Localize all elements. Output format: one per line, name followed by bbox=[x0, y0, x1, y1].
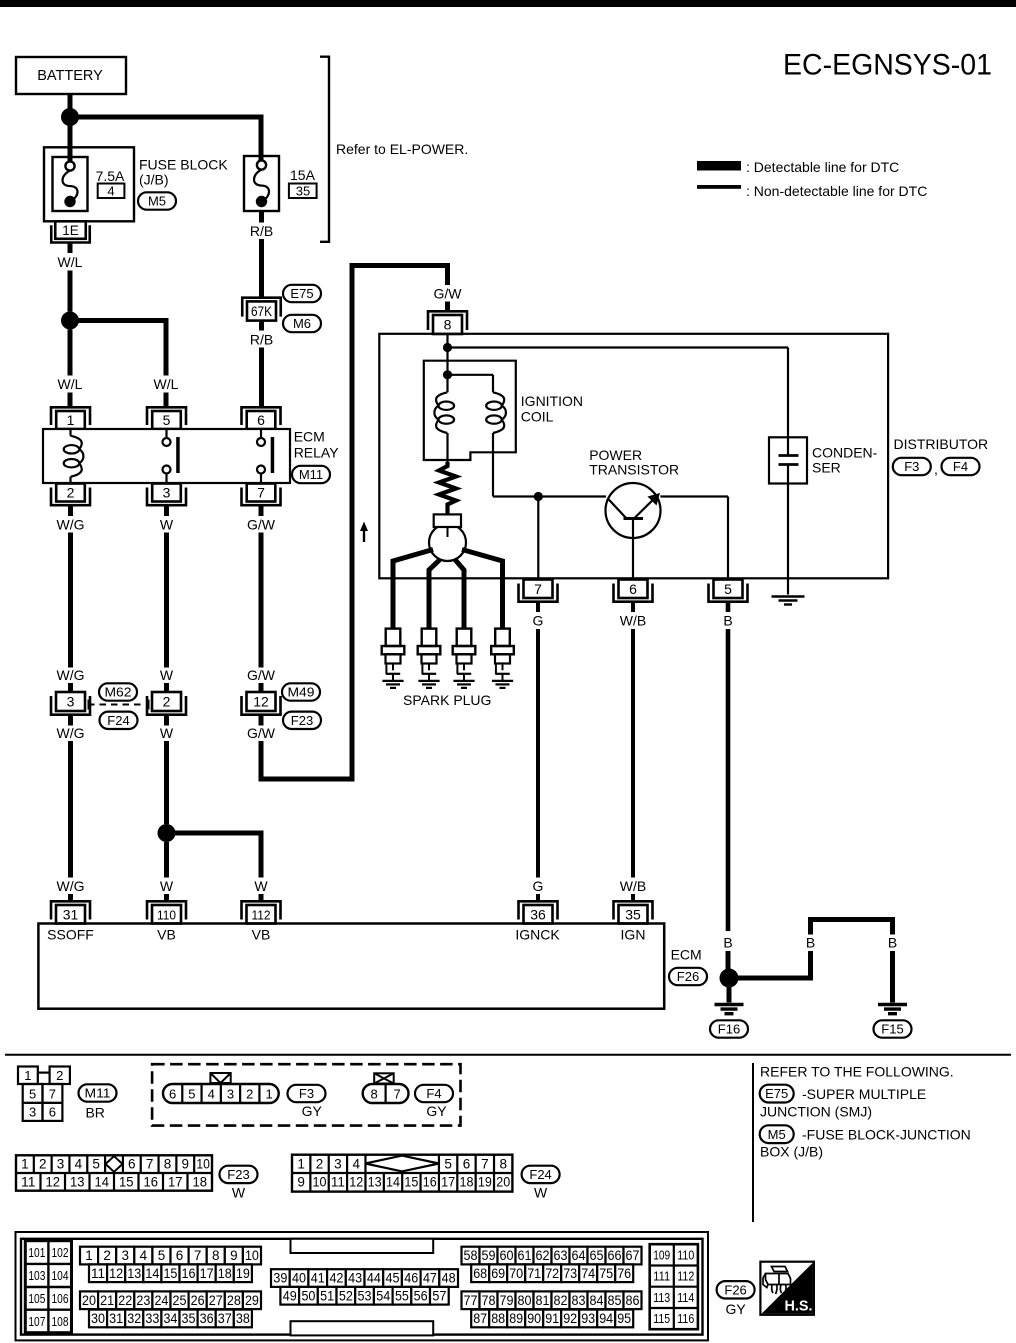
svg-text:W/G: W/G bbox=[57, 667, 85, 683]
svg-text:22: 22 bbox=[118, 1293, 132, 1308]
svg-text:104: 104 bbox=[52, 1269, 69, 1283]
svg-text:G/W: G/W bbox=[247, 725, 276, 741]
svg-text:6: 6 bbox=[169, 1086, 176, 1101]
svg-text:F23: F23 bbox=[291, 713, 313, 728]
svg-text:57: 57 bbox=[432, 1288, 446, 1303]
svg-text:112: 112 bbox=[677, 1270, 694, 1284]
svg-text:44: 44 bbox=[367, 1271, 381, 1286]
svg-text:6: 6 bbox=[176, 1248, 184, 1263]
svg-text:W/L: W/L bbox=[58, 254, 83, 270]
svg-text:GY: GY bbox=[426, 1103, 447, 1119]
svg-text:G/W: G/W bbox=[434, 286, 463, 302]
svg-text:F3: F3 bbox=[904, 459, 919, 474]
svg-text:16: 16 bbox=[423, 1175, 437, 1190]
svg-text:1: 1 bbox=[67, 412, 75, 428]
svg-text:3: 3 bbox=[57, 1157, 65, 1172]
svg-text:15: 15 bbox=[119, 1174, 134, 1189]
svg-text:W: W bbox=[232, 1185, 246, 1201]
svg-text:59: 59 bbox=[482, 1248, 496, 1263]
svg-text:58: 58 bbox=[464, 1248, 478, 1263]
svg-text:M11: M11 bbox=[85, 1086, 111, 1101]
svg-text:B: B bbox=[723, 613, 732, 629]
svg-text:,: , bbox=[934, 461, 938, 477]
svg-text:F4: F4 bbox=[426, 1086, 441, 1101]
svg-text:47: 47 bbox=[423, 1271, 437, 1286]
svg-text:16: 16 bbox=[144, 1174, 159, 1189]
svg-text:49: 49 bbox=[283, 1288, 297, 1303]
svg-text:F26: F26 bbox=[724, 1282, 746, 1297]
svg-text:5: 5 bbox=[92, 1157, 100, 1172]
svg-text:EC-EGNSYS-01: EC-EGNSYS-01 bbox=[783, 49, 992, 82]
svg-text:7: 7 bbox=[257, 485, 265, 501]
svg-text:20: 20 bbox=[496, 1175, 510, 1190]
svg-text:7: 7 bbox=[534, 581, 542, 597]
svg-text:W: W bbox=[160, 667, 174, 683]
svg-text:CONDEN-: CONDEN- bbox=[812, 445, 878, 461]
svg-text:W/B: W/B bbox=[620, 613, 646, 629]
svg-text:40: 40 bbox=[292, 1271, 306, 1286]
svg-text:3: 3 bbox=[67, 694, 75, 710]
svg-text:8: 8 bbox=[164, 1157, 172, 1172]
svg-text:E75: E75 bbox=[290, 286, 313, 301]
svg-text:66: 66 bbox=[608, 1248, 622, 1263]
svg-text:102: 102 bbox=[52, 1246, 69, 1260]
svg-text:ECM: ECM bbox=[671, 947, 702, 963]
svg-text:21: 21 bbox=[100, 1293, 114, 1308]
svg-text:54: 54 bbox=[376, 1288, 390, 1303]
svg-text:26: 26 bbox=[191, 1293, 205, 1308]
svg-text:35: 35 bbox=[625, 906, 641, 922]
svg-text:4: 4 bbox=[75, 1157, 83, 1172]
svg-text:51: 51 bbox=[320, 1288, 334, 1303]
svg-text:GY: GY bbox=[302, 1103, 323, 1119]
svg-text:110: 110 bbox=[157, 907, 176, 922]
svg-text:77: 77 bbox=[464, 1293, 478, 1308]
svg-text:20: 20 bbox=[82, 1293, 96, 1308]
svg-text:69: 69 bbox=[491, 1266, 505, 1281]
svg-text:2: 2 bbox=[163, 694, 171, 710]
svg-text:BATTERY: BATTERY bbox=[37, 68, 103, 84]
svg-text:65: 65 bbox=[590, 1248, 604, 1263]
svg-text:80: 80 bbox=[518, 1293, 532, 1308]
svg-text:SER: SER bbox=[812, 460, 841, 476]
svg-text:14: 14 bbox=[145, 1266, 159, 1281]
svg-text:G: G bbox=[533, 878, 544, 894]
svg-text:71: 71 bbox=[527, 1266, 541, 1281]
svg-text:14: 14 bbox=[95, 1174, 110, 1189]
svg-text:85: 85 bbox=[608, 1293, 622, 1308]
svg-text:55: 55 bbox=[395, 1288, 409, 1303]
svg-text:W/G: W/G bbox=[57, 725, 85, 741]
svg-text:: Detectable line for DTC: : Detectable line for DTC bbox=[746, 159, 899, 175]
svg-text:28: 28 bbox=[227, 1293, 241, 1308]
svg-text:108: 108 bbox=[52, 1315, 69, 1329]
svg-text:19: 19 bbox=[236, 1266, 250, 1281]
svg-text:89: 89 bbox=[509, 1311, 523, 1326]
svg-text:3: 3 bbox=[29, 1104, 36, 1119]
svg-text:62: 62 bbox=[536, 1248, 550, 1263]
svg-text:Refer to EL-POWER.: Refer to EL-POWER. bbox=[336, 141, 468, 157]
svg-text:W: W bbox=[160, 517, 174, 533]
svg-text:18: 18 bbox=[218, 1266, 232, 1281]
svg-text:B: B bbox=[888, 935, 897, 951]
svg-text:67K: 67K bbox=[251, 304, 272, 319]
svg-text:5: 5 bbox=[163, 412, 171, 428]
svg-text:13: 13 bbox=[127, 1266, 141, 1281]
svg-text:109: 109 bbox=[653, 1248, 670, 1262]
svg-text:79: 79 bbox=[500, 1293, 514, 1308]
svg-text:6: 6 bbox=[49, 1104, 56, 1119]
svg-text:36: 36 bbox=[200, 1311, 214, 1326]
svg-text:103: 103 bbox=[28, 1269, 45, 1283]
svg-text:13: 13 bbox=[70, 1174, 85, 1189]
svg-text:48: 48 bbox=[442, 1271, 456, 1286]
svg-text:SPARK PLUG: SPARK PLUG bbox=[403, 692, 491, 708]
svg-text:17: 17 bbox=[168, 1174, 183, 1189]
svg-text:BOX (J/B): BOX (J/B) bbox=[760, 1144, 823, 1160]
svg-text:78: 78 bbox=[482, 1293, 496, 1308]
svg-text:29: 29 bbox=[245, 1293, 259, 1308]
svg-text:19: 19 bbox=[478, 1175, 492, 1190]
svg-text:IGN: IGN bbox=[621, 927, 646, 943]
svg-text:8: 8 bbox=[212, 1248, 220, 1263]
svg-text:G/W: G/W bbox=[247, 517, 276, 533]
svg-text:: Non-detectable line for DTC: : Non-detectable line for DTC bbox=[746, 183, 927, 199]
svg-text:37: 37 bbox=[218, 1311, 232, 1326]
svg-text:9: 9 bbox=[230, 1248, 238, 1263]
svg-text:7: 7 bbox=[393, 1086, 400, 1101]
svg-text:17: 17 bbox=[200, 1266, 214, 1281]
svg-text:6: 6 bbox=[463, 1157, 471, 1172]
svg-text:1: 1 bbox=[265, 1086, 272, 1101]
svg-text:REFER TO THE FOLLOWING.: REFER TO THE FOLLOWING. bbox=[760, 1064, 954, 1080]
svg-text:93: 93 bbox=[581, 1311, 595, 1326]
svg-text:4: 4 bbox=[208, 1086, 215, 1101]
svg-text:12: 12 bbox=[349, 1175, 363, 1190]
svg-text:B: B bbox=[723, 935, 732, 951]
svg-text:W/L: W/L bbox=[154, 376, 179, 392]
svg-text:W/L: W/L bbox=[58, 376, 83, 392]
svg-text:87: 87 bbox=[473, 1311, 487, 1326]
svg-text:7: 7 bbox=[481, 1157, 489, 1172]
svg-text:FUSE BLOCK: FUSE BLOCK bbox=[139, 157, 228, 173]
svg-text:110: 110 bbox=[677, 1248, 694, 1262]
svg-text:W/G: W/G bbox=[57, 878, 85, 894]
svg-text:10: 10 bbox=[196, 1157, 210, 1172]
svg-text:75: 75 bbox=[599, 1266, 613, 1281]
svg-text:11: 11 bbox=[21, 1174, 36, 1189]
svg-text:52: 52 bbox=[339, 1288, 353, 1303]
svg-text:2: 2 bbox=[39, 1157, 47, 1172]
svg-text:106: 106 bbox=[52, 1292, 69, 1306]
svg-text:84: 84 bbox=[590, 1293, 604, 1308]
svg-text:41: 41 bbox=[311, 1271, 325, 1286]
svg-text:F16: F16 bbox=[718, 1022, 740, 1037]
svg-text:7: 7 bbox=[194, 1248, 202, 1263]
svg-text:TRANSISTOR: TRANSISTOR bbox=[589, 462, 679, 478]
svg-text:7.5A: 7.5A bbox=[96, 168, 125, 184]
svg-text:31: 31 bbox=[63, 906, 79, 922]
svg-text:88: 88 bbox=[491, 1311, 505, 1326]
svg-text:1: 1 bbox=[85, 1248, 93, 1263]
svg-text:38: 38 bbox=[236, 1311, 250, 1326]
svg-text:VB: VB bbox=[157, 927, 176, 943]
svg-text:81: 81 bbox=[536, 1293, 550, 1308]
svg-text:M5: M5 bbox=[768, 1127, 786, 1142]
svg-text:5: 5 bbox=[724, 581, 732, 597]
svg-text:30: 30 bbox=[91, 1311, 105, 1326]
svg-text:91: 91 bbox=[545, 1311, 559, 1326]
svg-text:(J/B): (J/B) bbox=[139, 172, 169, 188]
svg-text:1: 1 bbox=[24, 1068, 31, 1083]
svg-text:107: 107 bbox=[28, 1315, 45, 1329]
svg-text:G/W: G/W bbox=[247, 667, 276, 683]
svg-text:36: 36 bbox=[530, 906, 546, 922]
svg-text:W: W bbox=[254, 878, 268, 894]
svg-text:-SUPER MULTIPLE: -SUPER MULTIPLE bbox=[802, 1086, 926, 1102]
svg-text:8: 8 bbox=[444, 317, 452, 333]
svg-text:16: 16 bbox=[182, 1266, 196, 1281]
svg-text:7: 7 bbox=[49, 1086, 56, 1101]
svg-text:COIL: COIL bbox=[521, 409, 554, 425]
svg-text:18: 18 bbox=[459, 1175, 473, 1190]
svg-text:2: 2 bbox=[316, 1157, 324, 1172]
svg-text:15: 15 bbox=[163, 1266, 177, 1281]
svg-text:64: 64 bbox=[572, 1248, 586, 1263]
svg-text:82: 82 bbox=[554, 1293, 568, 1308]
svg-text:50: 50 bbox=[301, 1288, 315, 1303]
svg-text:1: 1 bbox=[21, 1157, 29, 1172]
svg-text:4: 4 bbox=[353, 1157, 361, 1172]
svg-text:M62: M62 bbox=[105, 685, 132, 700]
svg-text:31: 31 bbox=[109, 1311, 123, 1326]
svg-text:15A: 15A bbox=[290, 167, 316, 183]
svg-text:4: 4 bbox=[107, 184, 114, 199]
svg-text:32: 32 bbox=[127, 1311, 141, 1326]
svg-text:3: 3 bbox=[163, 485, 171, 501]
svg-text:53: 53 bbox=[358, 1288, 372, 1303]
svg-text:113: 113 bbox=[653, 1291, 670, 1305]
svg-text:M6: M6 bbox=[293, 316, 311, 331]
svg-text:114: 114 bbox=[677, 1291, 694, 1305]
svg-text:2: 2 bbox=[56, 1068, 63, 1083]
svg-text:27: 27 bbox=[209, 1293, 223, 1308]
svg-text:94: 94 bbox=[599, 1311, 613, 1326]
svg-text:60: 60 bbox=[500, 1248, 514, 1263]
svg-text:VB: VB bbox=[252, 927, 271, 943]
svg-text:2: 2 bbox=[67, 485, 75, 501]
svg-text:W: W bbox=[534, 1185, 548, 1201]
svg-text:DISTRIBUTOR: DISTRIBUTOR bbox=[894, 436, 989, 452]
svg-text:24: 24 bbox=[154, 1293, 168, 1308]
svg-text:9: 9 bbox=[297, 1175, 305, 1190]
svg-text:112: 112 bbox=[252, 907, 271, 922]
svg-text:11: 11 bbox=[331, 1175, 345, 1190]
svg-text:7: 7 bbox=[146, 1157, 154, 1172]
svg-text:R/B: R/B bbox=[250, 223, 273, 239]
svg-text:74: 74 bbox=[581, 1266, 595, 1281]
svg-text:12: 12 bbox=[46, 1174, 61, 1189]
svg-text:5: 5 bbox=[29, 1086, 36, 1101]
svg-text:70: 70 bbox=[509, 1266, 523, 1281]
svg-text:5: 5 bbox=[188, 1086, 195, 1101]
svg-text:105: 105 bbox=[28, 1292, 45, 1306]
svg-text:BR: BR bbox=[85, 1105, 104, 1121]
svg-text:34: 34 bbox=[163, 1311, 177, 1326]
svg-text:3: 3 bbox=[227, 1086, 234, 1101]
svg-text:ECM: ECM bbox=[294, 429, 325, 445]
svg-text:5: 5 bbox=[444, 1157, 452, 1172]
svg-text:GY: GY bbox=[725, 1301, 746, 1317]
svg-text:F3: F3 bbox=[299, 1086, 314, 1101]
svg-text:14: 14 bbox=[386, 1175, 400, 1190]
svg-text:73: 73 bbox=[563, 1266, 577, 1281]
svg-text:43: 43 bbox=[348, 1271, 362, 1286]
svg-text:95: 95 bbox=[617, 1311, 631, 1326]
svg-text:6: 6 bbox=[257, 412, 265, 428]
svg-text:2: 2 bbox=[103, 1248, 111, 1263]
svg-text:115: 115 bbox=[653, 1312, 670, 1326]
svg-text:F23: F23 bbox=[227, 1167, 249, 1182]
svg-text:1E: 1E bbox=[62, 223, 79, 238]
svg-text:W: W bbox=[160, 725, 174, 741]
svg-text:56: 56 bbox=[414, 1288, 428, 1303]
svg-text:F15: F15 bbox=[881, 1022, 903, 1037]
svg-text:6: 6 bbox=[128, 1157, 136, 1172]
svg-text:R/B: R/B bbox=[250, 332, 273, 348]
svg-text:W: W bbox=[160, 878, 174, 894]
svg-text:W/G: W/G bbox=[57, 517, 85, 533]
svg-text:10: 10 bbox=[245, 1248, 259, 1263]
svg-text:45: 45 bbox=[386, 1271, 400, 1286]
svg-text:SSOFF: SSOFF bbox=[47, 927, 94, 943]
svg-text:IGNCK: IGNCK bbox=[515, 927, 560, 943]
svg-text:111: 111 bbox=[653, 1270, 670, 1284]
svg-text:9: 9 bbox=[182, 1157, 190, 1172]
svg-text:2: 2 bbox=[246, 1086, 253, 1101]
svg-text:H.S.: H.S. bbox=[785, 1299, 813, 1315]
svg-text:-FUSE BLOCK-JUNCTION: -FUSE BLOCK-JUNCTION bbox=[802, 1127, 971, 1143]
svg-text:61: 61 bbox=[518, 1248, 532, 1263]
svg-text:B: B bbox=[806, 935, 815, 951]
svg-text:10: 10 bbox=[313, 1175, 327, 1190]
svg-text:5: 5 bbox=[158, 1248, 166, 1263]
svg-text:M11: M11 bbox=[299, 467, 323, 482]
svg-text:3: 3 bbox=[334, 1157, 342, 1172]
svg-text:35: 35 bbox=[296, 184, 310, 199]
svg-text:116: 116 bbox=[677, 1312, 694, 1326]
svg-text:11: 11 bbox=[91, 1266, 105, 1281]
svg-text:86: 86 bbox=[626, 1293, 640, 1308]
svg-text:12: 12 bbox=[253, 694, 269, 710]
svg-text:6: 6 bbox=[629, 581, 637, 597]
svg-text:18: 18 bbox=[193, 1174, 208, 1189]
svg-text:M5: M5 bbox=[148, 194, 166, 209]
svg-text:12: 12 bbox=[109, 1266, 123, 1281]
svg-text:83: 83 bbox=[572, 1293, 586, 1308]
svg-text:M49: M49 bbox=[288, 685, 315, 700]
svg-text:68: 68 bbox=[473, 1266, 487, 1281]
svg-text:13: 13 bbox=[368, 1175, 382, 1190]
svg-text:46: 46 bbox=[404, 1271, 418, 1286]
svg-text:JUNCTION (SMJ): JUNCTION (SMJ) bbox=[760, 1104, 872, 1120]
svg-text:76: 76 bbox=[617, 1266, 631, 1281]
svg-text:33: 33 bbox=[145, 1311, 159, 1326]
svg-text:8: 8 bbox=[499, 1157, 507, 1172]
svg-text:F24: F24 bbox=[107, 713, 129, 728]
svg-text:E75: E75 bbox=[765, 1086, 788, 1101]
svg-text:W/B: W/B bbox=[620, 878, 646, 894]
svg-text:63: 63 bbox=[554, 1248, 568, 1263]
svg-text:92: 92 bbox=[563, 1311, 577, 1326]
svg-text:39: 39 bbox=[273, 1271, 287, 1286]
svg-text:90: 90 bbox=[527, 1311, 541, 1326]
svg-text:15: 15 bbox=[404, 1175, 418, 1190]
svg-text:25: 25 bbox=[173, 1293, 187, 1308]
svg-text:17: 17 bbox=[441, 1175, 455, 1190]
svg-text:F4: F4 bbox=[953, 459, 968, 474]
svg-text:72: 72 bbox=[545, 1266, 559, 1281]
svg-text:67: 67 bbox=[626, 1248, 640, 1263]
svg-text:35: 35 bbox=[182, 1311, 196, 1326]
svg-text:F26: F26 bbox=[677, 969, 699, 984]
svg-text:4: 4 bbox=[140, 1248, 148, 1263]
svg-text:F24: F24 bbox=[529, 1167, 551, 1182]
svg-text:42: 42 bbox=[329, 1271, 343, 1286]
svg-text:8: 8 bbox=[370, 1086, 377, 1101]
svg-text:G: G bbox=[533, 613, 544, 629]
svg-text:3: 3 bbox=[121, 1248, 129, 1263]
svg-text:1: 1 bbox=[297, 1157, 305, 1172]
svg-text:IGNITION: IGNITION bbox=[521, 393, 583, 409]
svg-text:23: 23 bbox=[136, 1293, 150, 1308]
svg-text:101: 101 bbox=[28, 1246, 45, 1260]
svg-text:RELAY: RELAY bbox=[294, 445, 340, 461]
